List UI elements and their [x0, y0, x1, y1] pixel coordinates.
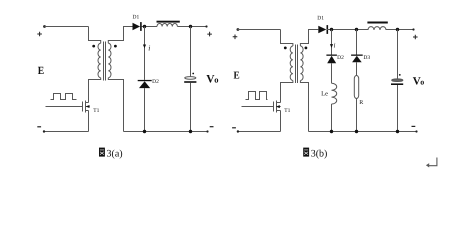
node junction D3 branch top [355, 28, 358, 31]
wire top input rail [45, 26, 89, 28]
plus label input [37, 32, 42, 37]
svg-text:i: i [334, 41, 336, 49]
node output + terminal b [412, 28, 414, 30]
transistor T1 b [274, 101, 281, 113]
capacitor C bottom plate [184, 81, 196, 83]
svg-text:D1: D1 [133, 15, 140, 21]
svg-text:T1: T1 [284, 108, 290, 114]
node output + terminal [205, 25, 207, 27]
svg-text:o: o [420, 78, 424, 87]
svg-text:3(a): 3(a) [107, 149, 123, 160]
polarity dot primary [92, 45, 95, 48]
paragraph return mark [426, 158, 437, 168]
wire secondary bottom lead b [300, 81, 308, 132]
wire primary bottom lead [89, 78, 101, 103]
minus label output [210, 126, 214, 128]
svg-text:D2: D2 [337, 55, 344, 61]
wire top rail after D1 [142, 26, 158, 28]
wire output bottom rail [124, 131, 208, 133]
plus label output [207, 32, 212, 37]
inductor L winding [157, 23, 177, 26]
wire top input rail b [238, 29, 281, 31]
wire input bottom rail b [238, 131, 281, 133]
svg-text:E: E [38, 65, 44, 77]
wire cap branch upper [190, 27, 192, 77]
capacitor C plus mark b [399, 74, 401, 76]
capacitor C top plate [185, 77, 196, 80]
node + input top terminal b [237, 28, 240, 31]
wire primary bottom lead b [281, 81, 293, 103]
svg-text:o: o [214, 75, 218, 85]
wire Le to rail [331, 104, 333, 132]
wire cap branch lower b [397, 85, 399, 132]
caption 图3(a) [99, 148, 123, 160]
gate drive square wave [51, 94, 77, 100]
transformer T2 core [296, 45, 298, 84]
svg-text:D3: D3 [363, 55, 370, 61]
wire top rail to output b [386, 29, 414, 31]
transformer T2 secondary winding [300, 46, 303, 81]
wire cap branch lower [190, 83, 192, 132]
resistor R [354, 76, 358, 99]
wire between D2 and Le [331, 63, 333, 83]
wire D3 to R [356, 62, 358, 75]
node output - terminal b [415, 130, 417, 132]
node junction freewheel bottom [143, 130, 146, 133]
wire secondary top lead b [300, 30, 318, 47]
wire secondary top lead [108, 27, 132, 44]
node junction R bottom [355, 130, 358, 133]
transistor T1 [83, 101, 90, 113]
gate drive square wave b [246, 92, 268, 100]
current arrow i [143, 45, 146, 49]
inductor Le winding [332, 83, 337, 104]
diode D1 [133, 23, 141, 31]
svg-text:Le: Le [321, 91, 328, 98]
wire cap branch upper b [397, 30, 399, 79]
diode D3 [351, 55, 363, 56]
wire source to rail [88, 111, 90, 132]
node junction Le bottom [330, 130, 333, 133]
wire primary top lead b [281, 30, 293, 47]
diode D2 [138, 80, 152, 81]
wire gate b [242, 106, 274, 108]
svg-text:i: i [148, 44, 150, 53]
wire primary top lead [89, 27, 101, 44]
node junction cap top b [396, 28, 399, 31]
wire D2 branch upper b [331, 30, 333, 55]
caption 图3(b) [303, 148, 327, 160]
current arrow i b [330, 44, 333, 48]
transformer T2 primary winding [290, 46, 293, 81]
wire freewheel branch lower [144, 88, 146, 131]
wire R to rail [356, 99, 358, 132]
svg-text:D2: D2 [152, 79, 159, 85]
inductor L2 winding [368, 27, 386, 30]
diode D1 b [318, 26, 326, 34]
capacitor C top plate b [392, 79, 403, 82]
wire top rail to output [177, 26, 206, 28]
node input bottom terminal b [237, 130, 239, 132]
svg-text:3(b): 3(b) [311, 149, 328, 160]
wire top rail after D1 b [327, 29, 368, 31]
wire gate [46, 106, 83, 108]
wire output bottom rail b [309, 131, 417, 133]
inductor L bar [157, 21, 180, 23]
transformer T core [104, 42, 106, 81]
inductor L2 bar [367, 22, 387, 24]
plus label input b [233, 35, 238, 40]
polarity dot primary b [284, 47, 287, 50]
capacitor C plus mark [192, 73, 194, 75]
node output - terminal [206, 130, 208, 132]
minus label input [37, 126, 41, 128]
polarity dot secondary [114, 45, 117, 48]
node junction cap top [189, 25, 192, 28]
svg-text:R: R [359, 100, 363, 106]
node + input top terminal [43, 25, 46, 28]
plus label output b [413, 35, 418, 40]
minus label output b [412, 125, 416, 127]
node junction D1-freewheel [143, 25, 146, 28]
wire source to rail b [280, 111, 282, 132]
svg-text:E: E [234, 71, 240, 82]
transformer T secondary winding [108, 43, 111, 77]
wire D3 branch upper [356, 30, 358, 55]
node input bottom terminal [43, 130, 45, 132]
wire freewheel branch upper [144, 27, 146, 80]
node junction cap bottom [189, 130, 192, 133]
node junction cap bottom b [396, 130, 399, 133]
polarity dot secondary b [305, 47, 308, 50]
node junction D1 b [330, 28, 333, 31]
transformer T primary winding [98, 43, 101, 77]
wire input bottom rail [44, 131, 89, 133]
diode D2 b [326, 55, 337, 56]
svg-text:T1: T1 [93, 108, 99, 114]
capacitor C bottom plate b [391, 83, 403, 85]
wire secondary bottom lead [108, 78, 123, 132]
svg-text:D1: D1 [317, 16, 324, 22]
minus label input b [232, 127, 236, 129]
